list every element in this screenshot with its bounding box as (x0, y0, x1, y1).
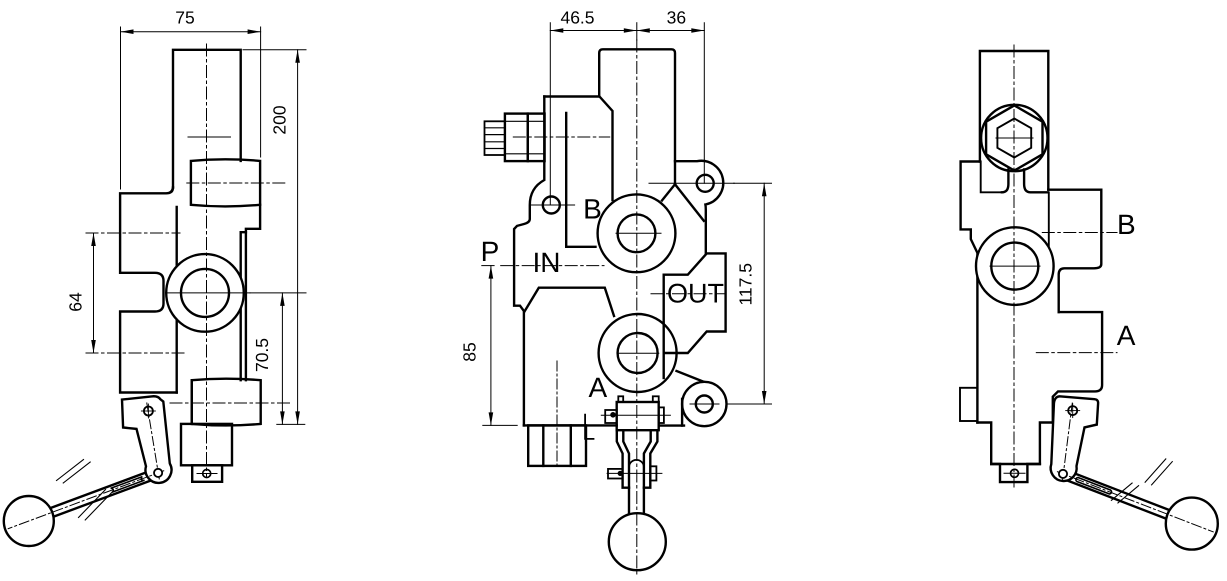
front view: relief adjuster serrated knob (485, 121, 505, 155)
front view: relief adjuster body boss (528, 114, 545, 162)
left view: lower boss center line (170, 402, 290, 404)
front view: B port circle outer (598, 194, 676, 272)
right view: A port center line (1036, 352, 1117, 354)
right view: hex plug center line (996, 137, 1033, 139)
left view: handle bracket plate (122, 396, 171, 483)
left view: upper boss center line (187, 182, 286, 184)
left view: cap joint tick (188, 136, 231, 138)
front view: lower right boss crosshair (690, 403, 719, 405)
svg-text:B: B (1117, 209, 1136, 240)
left view: bottom screw circle (203, 470, 211, 478)
right view: handle bracket plate (1051, 396, 1098, 481)
front view: lower right round boss hole (696, 396, 713, 413)
svg-text:75: 75 (175, 8, 194, 28)
right view: A boss right step (1053, 312, 1102, 422)
front view: cap chamfer and bore right edge (600, 97, 613, 201)
front view: lower pin dot (618, 471, 622, 475)
front view: feet center line (556, 361, 558, 468)
left view: top cap outline (173, 50, 241, 188)
front view: left shoulder (544, 95, 599, 97)
right view: bracket pivot axis line (1062, 403, 1072, 481)
left view: body left profile with notch (120, 188, 177, 393)
left view: inner vertical line right side (241, 232, 246, 380)
dimension 200: dimension line with arrows (297, 50, 299, 425)
right view: lever ball knob (1166, 498, 1218, 550)
left view: lower boss left edge (191, 380, 193, 424)
left view: lever axis center line (8, 471, 164, 529)
front view: yoke right arm inner and rod right edge (644, 430, 651, 515)
front view: yoke left arm outer (617, 430, 629, 488)
front view: clevis right pin tab (659, 407, 664, 423)
dimension 85: dimension line with arrows (490, 266, 492, 426)
left view: right side step below boss (246, 205, 260, 380)
front view: lower right round boss outer (682, 382, 726, 426)
dimension 70.5: extension line (250, 292, 306, 294)
front view: lower pin left tab (608, 469, 623, 479)
front view: P port center line (482, 265, 494, 267)
front view: chamfer edge junction to ear bottom (675, 184, 704, 221)
front view: internal ledge line (525, 288, 615, 316)
right view: bracket upper pivot screw (1068, 406, 1077, 415)
front view: OUT port center line (651, 293, 726, 295)
left view: lever arm (44, 469, 160, 519)
front view: chamfer edge junction to B circle (662, 184, 675, 200)
front view: right mounting ear hole (697, 175, 714, 192)
front view: B port crosshair (616, 232, 661, 234)
dimension 117.5: bottom extension line (727, 403, 772, 405)
right view: neck below hex plug (1002, 170, 1009, 193)
front view: relief adjuster center line (513, 136, 609, 138)
left view: spool circle horizontal center line (166, 292, 250, 294)
right view: lever axis center line (1057, 472, 1213, 532)
right view: inner corner edge below cap (1048, 193, 1050, 251)
front view: body bottom edge left of clevis (524, 424, 617, 426)
left view: bracket lower pivot pin (154, 469, 162, 477)
right view: top cap outline (980, 51, 1048, 190)
front view: B port circle inner (618, 214, 656, 252)
front view: OUT port boss octagon (664, 253, 726, 353)
right view: hex plug boss circle (981, 105, 1047, 171)
left view: main spool circle inner (181, 269, 229, 317)
svg-text:70.5: 70.5 (252, 338, 272, 372)
front view: small step left of clevis (585, 415, 593, 439)
left view: main spool circle outer (166, 254, 244, 332)
front view: yoke right arm outer (644, 430, 658, 488)
left view: lever break marks pair 2 (79, 490, 106, 518)
dimension 200: extension lines (243, 49, 306, 51)
left view: lever break marks pair 1 (57, 460, 84, 481)
svg-text:A: A (588, 372, 607, 403)
front view: chamfer to lower right boss (677, 371, 704, 382)
front view: clevis pin center line (601, 414, 670, 416)
right view: left step small block (960, 388, 977, 421)
left view: bottom screw crosshair (197, 473, 217, 475)
dimension 117.5: top extension line (734, 182, 772, 184)
front view: rod eye top arc (629, 460, 644, 467)
front view: yoke left arm inner and rod left edge (623, 430, 629, 515)
right view: B port center line (1042, 232, 1117, 234)
right view: lever arm (1061, 470, 1175, 521)
left view: main column left edge (175, 207, 177, 393)
front view: clevis pin end dot (611, 413, 615, 417)
right view: left protrusion block (961, 162, 980, 423)
svg-text:85: 85 (460, 342, 480, 361)
right view: main circle crosshair (990, 265, 1040, 267)
front view: A port circle inner (618, 333, 658, 373)
front view: spool bore internal edge (566, 113, 595, 247)
right view: lever break marks pair 2 (1145, 459, 1166, 482)
front view: right profile upper with ear lobe (675, 161, 723, 254)
svg-text:200: 200 (270, 105, 290, 134)
front view: mounting feet block (528, 425, 586, 466)
right view: main circle inner (991, 243, 1038, 290)
dimension 75: extension lines (120, 27, 122, 189)
left view: bracket pivot axis line (147, 403, 160, 481)
right view: lever slot (1076, 478, 1112, 494)
svg-text:IN: IN (533, 247, 561, 278)
front view: body left profile with ear and IN boss (514, 97, 544, 426)
right view: B boss right step (1048, 190, 1101, 312)
front view: IN port center line (501, 265, 604, 267)
svg-text:36: 36 (667, 8, 686, 28)
left view: upper port boss (191, 159, 260, 206)
right view: cap inner edge and shoulder (981, 162, 1002, 193)
left view: lever ball knob (4, 496, 54, 546)
left view: upper port center line (86, 232, 180, 234)
svg-text:B: B (583, 194, 602, 225)
left view: lever slot (111, 477, 144, 493)
front view: lower right boss chord edge (681, 399, 683, 426)
left view: bottom end block (192, 465, 222, 482)
svg-text:46.5: 46.5 (560, 8, 594, 28)
dimension 117.5: dimension line with arrows (763, 183, 765, 404)
dimension 75: dimension line with arrows (121, 31, 261, 33)
front view: right ear center line (649, 182, 734, 184)
left view: bracket upper pivot screw (144, 407, 153, 416)
front view: clevis block (617, 402, 659, 430)
left view: lower port boss (192, 379, 261, 426)
dimension 46.5/36: extension ticks (549, 23, 551, 205)
front view: body bottom edge right of clevis (659, 424, 684, 426)
front view: relief adjuster locknut (505, 114, 528, 162)
left view: lower port center line (86, 352, 185, 354)
svg-text:OUT: OUT (667, 278, 724, 308)
right view: bracket lower pivot pin (1059, 470, 1067, 478)
dimension 46.5: dimension line with arrows (550, 30, 637, 32)
front view: lower pin center line (607, 472, 662, 474)
front view: right profile below OUT boss (663, 353, 665, 378)
front view: top cap outline (599, 49, 675, 184)
svg-text:64: 64 (66, 292, 86, 312)
svg-text:P: P (481, 236, 500, 267)
right view: bottom edge (977, 423, 1052, 483)
right view: bottom block joint line (991, 463, 1040, 465)
front view: lower pin right tab (650, 466, 656, 480)
front view: A port circle outer (599, 314, 677, 392)
left view: vertical center line (206, 44, 208, 477)
front view: clevis left prong tip (618, 396, 623, 402)
right view: vertical center line (1013, 45, 1015, 487)
right view: lever break marks pair 1 (1111, 483, 1132, 500)
front view: left ear crosshair (530, 204, 574, 206)
front view: clevis right prong tip (653, 396, 659, 402)
front view: main vertical center line (636, 40, 638, 575)
dimension 85: bottom extension line (483, 424, 517, 426)
svg-text:117.5: 117.5 (736, 263, 756, 306)
right view: hex plug outer hexagon (986, 105, 1042, 170)
right view: main circle outer (976, 227, 1054, 305)
front view: left mounting ear hole (543, 197, 560, 214)
left view: bottom housing block (181, 424, 232, 465)
dimension 70.5: dimension line with arrows (281, 293, 283, 425)
front view: A port crosshair (618, 352, 658, 354)
dimension 36: dimension line with arrows (637, 30, 705, 32)
dimension 64: dimension line with arrows (93, 233, 95, 353)
front view: ball knob (609, 513, 666, 570)
right view: bottom screw circle (1011, 469, 1019, 477)
svg-text:A: A (1117, 320, 1136, 351)
front view: clevis left pin tab (605, 410, 617, 423)
right view: hex plug inner hexagon (997, 119, 1031, 158)
